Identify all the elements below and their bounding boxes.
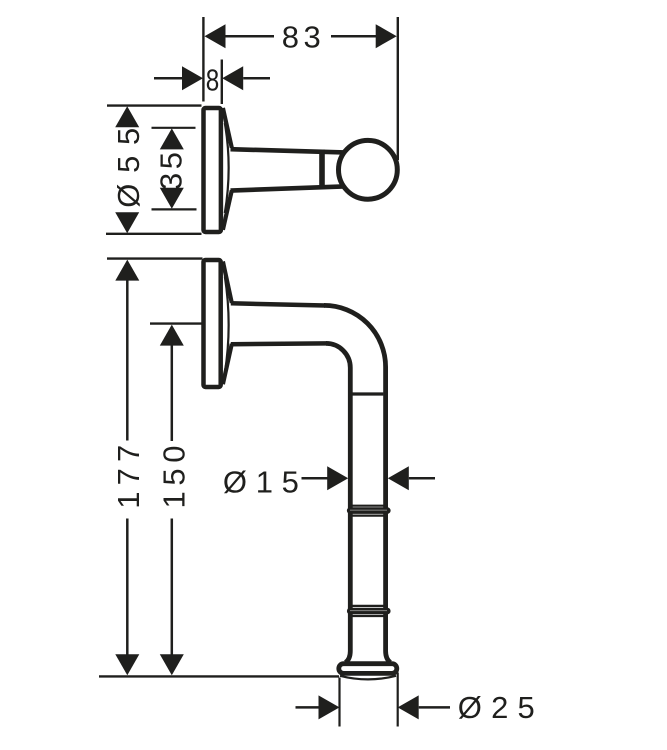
- extension line: right of dim 83 (x=397.8, down to ball): [397, 17, 399, 160]
- extension line: top of dim 150 (y=323.6): [150, 322, 203, 324]
- dimension O55 arrows: [115, 106, 139, 233]
- dimension 177 line + arrows: [115, 260, 139, 676]
- foot base ring: [339, 664, 397, 674]
- svg-text:8: 8: [206, 63, 220, 98]
- extension line: bottom of dim 35 (y=209.4): [152, 208, 197, 210]
- hook wall plate (side view): [204, 108, 221, 232]
- holder cone top slant: [223, 262, 232, 303]
- extension line: bottom of dim O55 (y=233.8): [106, 233, 202, 235]
- holder cone silhouette arc: [225, 277, 229, 374]
- svg-text:150: 150: [157, 446, 192, 509]
- holder arm top edge: [231, 303, 325, 305]
- svg-text:Ø15: Ø15: [223, 465, 299, 500]
- hook stem collar ring: [319, 150, 325, 190]
- extension line: right of dim O25 (x=397.7): [397, 673, 399, 727]
- dimension 150 line + arrows: [160, 325, 184, 676]
- dimension O25 arrows + tails: [296, 695, 451, 719]
- extension line: left of dim 83 / dim 8 (x=203.4): [202, 17, 204, 102]
- pipe joint line below bend: [353, 392, 384, 395]
- ground line: [99, 675, 339, 677]
- hook ball knob: [339, 140, 398, 199]
- hook cone top slant: [223, 108, 232, 148]
- hook cone bottom slant: [223, 190, 232, 229]
- foot bottom sag arc: [340, 676, 396, 680]
- hook stem top edge: [231, 149, 345, 152]
- dimension 8 arrows + tails: [154, 66, 270, 90]
- holder wall plate (side view): [204, 260, 221, 387]
- pipe collar ring 2: [347, 606, 391, 616]
- pipe collar ring 1: [347, 506, 391, 516]
- svg-text:Ø55: Ø55: [111, 128, 146, 208]
- extension line: top of dim 35 (y=127.8): [152, 127, 196, 129]
- holder arm bottom edge: [231, 341, 327, 346]
- extension line: top of dim 177 (y=258.6): [107, 257, 203, 259]
- hook cone silhouette arc: [225, 123, 229, 213]
- holder cone bottom slant: [223, 344, 232, 384]
- extension line: top of dim O55 (y=105.6): [107, 104, 202, 106]
- holder outer bend + pipe right edge: [324, 305, 390, 662]
- dimension 83 line + arrows: [205, 24, 397, 48]
- holder inner bend + pipe left edge: [326, 343, 350, 662]
- dimension O15 arrows + tails: [302, 466, 436, 490]
- dimension 35 arrows: [160, 128, 184, 208]
- svg-text:177: 177: [111, 445, 146, 509]
- extension line: left of dim O25 (x=339.5): [338, 678, 340, 727]
- extension line: right of dim 8 (x=221.8): [221, 60, 223, 105]
- hook stem bottom edge: [231, 186, 345, 190]
- svg-text:Ø25: Ø25: [458, 690, 535, 725]
